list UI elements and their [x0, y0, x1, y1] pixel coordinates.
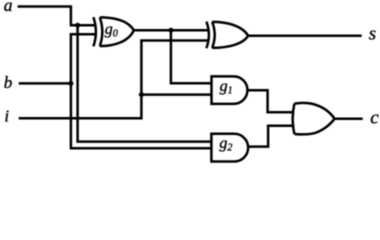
- wire s output: [248, 35, 362, 38]
- svg-text:g1: g1: [220, 78, 233, 97]
- wire b up to g0 input 2: [71, 34, 95, 84]
- wire g2 output to or input 2: [248, 126, 294, 147]
- xor gate s: [206, 22, 248, 49]
- svg-text:c: c: [370, 108, 379, 129]
- wire a branch down to g2 input 1: [78, 25, 211, 141]
- junction b: [68, 81, 73, 86]
- and gate g1: [212, 76, 248, 104]
- wire g1 output to or input 1: [247, 90, 294, 112]
- svg-text:g2: g2: [219, 135, 232, 154]
- junction g0 output branch: [168, 28, 173, 33]
- xor gate g0: [93, 17, 133, 46]
- or gate: [293, 103, 335, 135]
- wire a to g0 input 1: [18, 7, 95, 26]
- and gate g2: [211, 134, 248, 162]
- wire i up to xor s input 2: [19, 41, 208, 119]
- wire g0 output to xor s input 1: [134, 29, 208, 32]
- wire b down to g2 input 2: [71, 83, 211, 148]
- junction a branch: [75, 23, 80, 28]
- svg-text:b: b: [4, 73, 13, 92]
- wire i branch to g1 input 2: [141, 93, 210, 96]
- wire g0 branch down to g1 input 1: [171, 30, 211, 83]
- wire b to junction: [19, 82, 71, 85]
- junction i branch: [139, 92, 144, 97]
- svg-text:a: a: [4, 0, 13, 15]
- svg-text:g0: g0: [105, 21, 118, 40]
- wire c output: [335, 118, 363, 121]
- svg-text:s: s: [369, 23, 376, 44]
- svg-text:i: i: [4, 107, 9, 126]
